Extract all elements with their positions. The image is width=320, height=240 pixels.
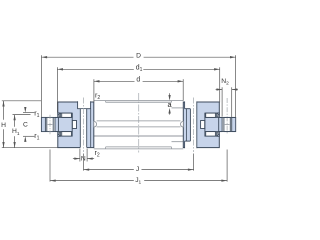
top cage strip left [59,114,60,118]
canvas [0,0,240,240]
dimension N extension right [86,149,88,162]
radial roller center mark left [48,124,53,126]
bottom axial roller right [206,132,216,137]
inner ring seam right [204,113,206,132]
dimension N2 tails [216,89,223,91]
bearing axis centerline [138,93,140,153]
plate step tab bottom left [58,135,60,137]
dimension N arrows [74,157,80,159]
top axial roller pocket left [58,113,72,117]
dimension C lower arrow [24,139,26,141]
dimension H1 arrows [13,115,15,121]
rim inner wall bottom left [105,147,107,149]
top axial roller right [206,113,216,117]
counterbore recess left [78,101,91,109]
radial roller left [47,117,53,131]
outer ring left cross-section body [58,102,94,148]
dimension H extension bottom [2,147,58,149]
dimension C extension bottom [23,135,35,137]
dimension C extension top [23,112,35,114]
bolt hole left bottom opening [81,147,87,149]
dimension H1 extension top [13,114,31,116]
svg-text:J: J [136,166,139,173]
ring seam left [90,109,92,148]
radial roller center mark right [225,124,230,126]
bottom face silhouette line [106,146,172,148]
dimension J extension right [193,154,195,171]
mouth ceiling line right [219,116,235,118]
dimension d1 arrows [57,68,63,70]
rim inner wall top right [171,101,173,103]
dimension N2 arrows [217,88,223,90]
radial roller outer ring (rib) right [232,117,236,131]
lubrication groove notch right [181,121,184,127]
dimension N2 extension line left [221,87,223,116]
cage guide square left [72,121,76,129]
inner ring rib left extension [55,117,58,131]
dimension d1 extension line left [56,67,58,112]
lubrication groove bottom line [97,126,181,128]
bolt hole centerline left [83,98,85,153]
dimension J line [84,169,134,171]
outer ring right cross-section body [183,102,219,148]
rim inner wall top left [105,101,107,103]
dimension d arrows [94,80,100,82]
dimension J extension left [83,154,85,171]
rim inner wall bottom right [171,147,173,149]
dimension H arrows [2,101,4,107]
bottom cage strip right [217,132,218,136]
top cage strip right [217,114,218,118]
bolt hole right [190,101,196,148]
bottom axial roller pocket left [58,132,72,137]
ring seam silhouette line [94,135,184,137]
spot-face floor silhouette line [172,107,185,109]
dimension J1 arrows [50,179,56,181]
dimension H extension top [2,100,41,102]
mouth ceiling line left [41,116,57,118]
dimension N tails [73,158,80,160]
dimension N2 extension line right [231,87,233,117]
spot-face ceiling silhouette line [172,141,185,143]
dimension d extension line right [182,79,184,100]
top face silhouette line [106,101,172,103]
dimension d extension line left [93,79,95,102]
dimension J1 line [50,180,134,182]
svg-text:D: D [136,52,141,59]
dimension D extension line left [41,55,43,117]
dimension C upper arrow [24,108,26,110]
svg-text:H: H [1,122,6,129]
dimension d1 extension line right [219,67,221,102]
plate step tab top right [217,113,219,114]
top axial roller left [62,113,72,117]
svg-text:C: C [23,122,28,129]
dimension J1 extension right [226,150,228,182]
dimension J arrows [84,168,90,170]
lubrication groove top line [97,120,181,122]
dimension a lower arrow [169,110,171,114]
inner ring rib right extension [219,117,222,131]
radial roller centerline left [49,115,51,135]
lubrication groove notch left [94,121,97,127]
dimension D arrows [42,56,48,58]
dimension N extension left [79,149,81,162]
dimension D extension line right [235,55,237,117]
spot-face rebate right top [185,101,197,108]
dimension a upper arrow [169,93,171,98]
top axial roller pocket right [205,113,219,117]
mouth floor line right [219,131,235,133]
radial roller outer ring (rib) left [41,117,45,131]
bolt hole centerline right [193,98,195,153]
plate step tab top left [58,113,60,114]
dimension H1 line [14,115,16,127]
inner ring seam left [71,113,73,132]
dimension J1 extension left [49,150,51,182]
plate step tab bottom right [217,135,219,137]
cage guide square right [201,121,205,129]
mouth floor line left [41,131,57,133]
bottom axial roller pocket right [205,132,219,137]
dimension H line [3,101,5,120]
spot-face rebate right bottom [185,142,197,149]
bolt hole left [80,109,86,148]
dimension d1 line [57,68,133,70]
bottom axial roller left [62,132,72,137]
dimension d line [94,80,135,82]
rim top silhouette line [94,100,184,102]
radial roller centerline right [226,98,228,134]
radial roller right [224,117,230,131]
dimension D line [41,56,133,58]
bottom cage strip left [59,132,60,136]
ring seam right [185,109,187,141]
rim bottom silhouette line [94,148,184,150]
svg-text:d: d [136,77,140,84]
